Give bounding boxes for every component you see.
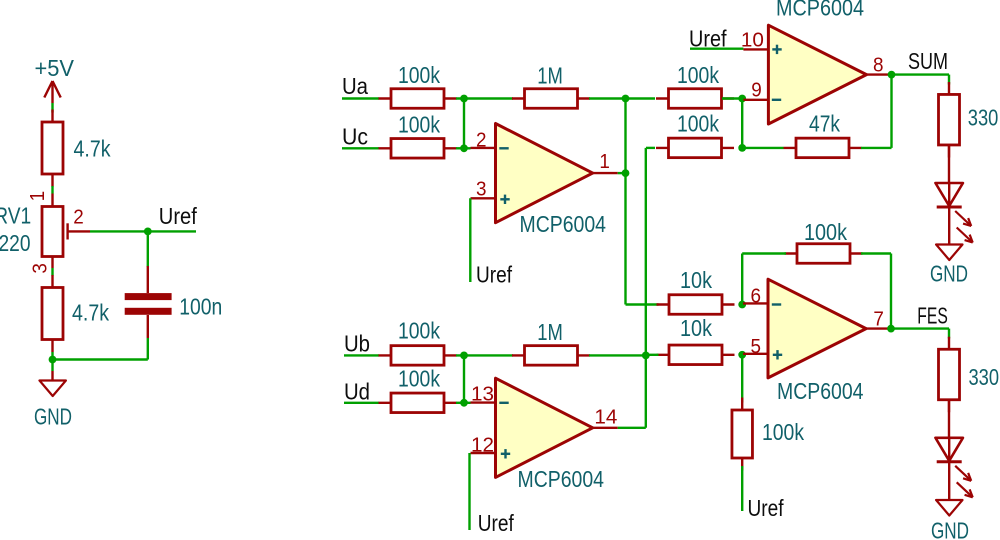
svg-text:330: 330 — [969, 364, 1000, 390]
svg-text:1M: 1M — [537, 319, 563, 345]
svg-text:MCP6004: MCP6004 — [777, 378, 864, 404]
wire to 10k pin6 — [626, 303, 659, 305]
wire — [51, 352, 53, 360]
svg-text:8: 8 — [873, 55, 884, 77]
node junction R2/GND — [49, 356, 57, 364]
node junction 47k row — [738, 144, 746, 152]
wire pin12 to Uref — [468, 453, 470, 530]
wire feedback C to output — [890, 254, 892, 329]
wire R15 to 1M — [456, 354, 513, 356]
resistor R2 — [42, 275, 63, 352]
svg-text:Uref: Uref — [159, 203, 198, 229]
LED D1 — [935, 183, 972, 243]
svg-text:4.7k: 4.7k — [74, 136, 111, 162]
wire — [51, 268, 53, 276]
wire U1A output — [618, 172, 626, 174]
wire 47k to output col — [861, 147, 892, 149]
node junction Ud row — [460, 399, 468, 407]
svg-text:100k: 100k — [804, 219, 847, 245]
wire pin9 column — [741, 99, 743, 148]
svg-text:12: 12 — [471, 434, 494, 456]
wire Ua — [342, 97, 379, 99]
wire junction B to 10k pin5 — [646, 354, 659, 356]
ground GND left pin — [51, 371, 53, 381]
wire feedback C left — [742, 252, 786, 254]
svg-text:2: 2 — [73, 206, 84, 228]
ground GND left — [40, 381, 66, 397]
LED D2 — [935, 438, 972, 498]
wire feedback C right — [861, 252, 891, 254]
node junction U1A output — [622, 169, 630, 177]
resistor R12 10k (pin5) — [657, 345, 735, 365]
svg-text:100k: 100k — [398, 62, 440, 88]
resistor R15 100k (Ub) — [379, 346, 457, 366]
wire LED1 cathode — [948, 207, 950, 245]
node junction Uc row — [460, 144, 468, 152]
node junction SUM output — [888, 71, 896, 79]
svg-text:Uref: Uref — [478, 510, 515, 536]
resistor R8 47k — [784, 138, 862, 158]
node junction 1M/feedback D — [642, 352, 650, 360]
wire R6 to pin9 — [722, 97, 743, 99]
svg-text:3: 3 — [29, 263, 51, 274]
svg-text:10k: 10k — [680, 267, 712, 293]
node junction Ub row — [460, 352, 468, 360]
resistor R7 100k (sum B) — [656, 138, 734, 158]
node junction pin5 — [738, 351, 746, 359]
svg-text:47k: 47k — [809, 111, 840, 137]
capacitor C1 100n — [125, 266, 172, 338]
svg-text:9: 9 — [751, 80, 762, 102]
power +5V symbol — [44, 81, 60, 103]
wire to 47k — [742, 147, 783, 149]
svg-text:Ud: Ud — [344, 378, 370, 404]
wire LED2 cathode — [948, 462, 950, 500]
node junction 1M/feedback A — [622, 95, 630, 103]
wire to 330 top — [948, 75, 950, 85]
svg-text:RV1: RV1 — [0, 202, 31, 228]
svg-text:100k: 100k — [677, 62, 719, 88]
svg-text:GND: GND — [930, 261, 968, 287]
wire R14 to Uref — [741, 466, 743, 511]
wire column B vertical — [645, 148, 647, 428]
wire feedback C down — [741, 254, 743, 305]
svg-text:GND: GND — [34, 404, 72, 430]
potentiometer RV1 — [42, 194, 90, 269]
node junction Uref/C1 — [144, 228, 152, 236]
wire Ub-Ud columns — [463, 355, 465, 402]
wire Uc — [342, 147, 379, 149]
svg-text:100k: 100k — [677, 111, 719, 137]
wire bottom rail — [53, 358, 148, 360]
wire 1M to junction B — [589, 354, 646, 356]
op-amp U1D — [471, 378, 618, 477]
wire U1D output — [618, 427, 646, 429]
svg-text:SUM: SUM — [908, 48, 948, 74]
svg-text:Uref: Uref — [748, 495, 785, 521]
pin name minus U1A — [499, 147, 508, 149]
wire 1M to junction A — [589, 97, 655, 99]
resistor R1 — [42, 110, 63, 187]
node junction Ua row — [460, 95, 468, 103]
svg-text:Ub: Ub — [344, 331, 370, 357]
ground GND top right — [936, 245, 962, 261]
svg-text:Uref: Uref — [476, 262, 513, 288]
svg-text:1M: 1M — [537, 62, 563, 88]
svg-text:4.7k: 4.7k — [72, 300, 109, 326]
pin name minus U1D — [499, 402, 508, 404]
svg-text:100k: 100k — [398, 365, 440, 391]
wire SUM output — [892, 73, 950, 75]
wire Uref to pin10 — [690, 48, 743, 50]
resistor R11 10k (pin6) — [657, 295, 735, 315]
wire to capacitor — [147, 231, 149, 266]
wire Ud — [344, 402, 379, 404]
wire to 330 bottom — [948, 329, 950, 339]
wire pin3 to Uref — [469, 198, 471, 282]
svg-text:100n: 100n — [179, 294, 222, 320]
op-amp U1C — [743, 279, 891, 378]
ground GND bottom right — [936, 500, 962, 516]
pin name plus U1A — [500, 195, 509, 204]
svg-text:1: 1 — [27, 191, 49, 202]
svg-text:13: 13 — [471, 383, 494, 405]
svg-text:+5V: +5V — [35, 55, 75, 81]
wire column A vertical — [624, 99, 626, 305]
resistor R14 100k (Uref bias) — [732, 398, 753, 471]
svg-text:100k: 100k — [398, 112, 440, 138]
op-amp U1B — [743, 25, 891, 124]
resistor R9 330 — [939, 82, 960, 158]
wire to GND — [51, 360, 53, 372]
wire feedback B vertical — [890, 75, 892, 148]
wire cap bottom — [147, 338, 149, 360]
wire LED2 anode — [948, 400, 950, 438]
svg-text:100k: 100k — [762, 419, 804, 445]
node junction pin9 — [738, 95, 746, 103]
svg-text:Uc: Uc — [342, 123, 368, 149]
svg-text:10k: 10k — [680, 315, 712, 341]
pin name plus U1B — [772, 45, 781, 54]
wire — [51, 103, 53, 113]
pin name plus U1C — [773, 350, 782, 359]
svg-text:MCP6004: MCP6004 — [520, 211, 607, 237]
svg-text:100k: 100k — [398, 318, 440, 344]
resistor R16 100k (Ud) — [379, 393, 457, 413]
svg-text:MCP6004: MCP6004 — [776, 0, 864, 21]
wire Uref from wiper — [90, 230, 196, 232]
wire LED1 anode — [948, 145, 950, 183]
svg-text:FES: FES — [917, 303, 948, 329]
pin name minus U1C — [772, 303, 781, 305]
wire FES output — [891, 327, 949, 329]
svg-text:220: 220 — [0, 230, 30, 256]
pin name plus U1D — [501, 449, 510, 458]
resistor R17 1M — [512, 346, 590, 366]
svg-text:Ua: Ua — [342, 73, 368, 99]
wire Ua-Uc columns — [463, 99, 465, 149]
svg-text:330: 330 — [968, 104, 999, 130]
wire column B to R7 — [646, 147, 655, 149]
resistor R3 100k (Ua) — [379, 89, 457, 109]
pin name minus U1B — [772, 99, 781, 101]
wire R3 to R5 1M — [456, 97, 513, 99]
node junction FES output — [887, 325, 895, 333]
svg-text:1: 1 — [599, 151, 610, 173]
wire Ub — [344, 354, 379, 356]
op-amp U1A — [471, 124, 618, 223]
resistor R6 100k (sum A) — [656, 89, 734, 109]
svg-text:GND: GND — [931, 518, 969, 540]
resistor R10 100k feedback FES — [785, 244, 863, 264]
svg-text:3: 3 — [476, 179, 487, 201]
resistor R13 330 — [939, 337, 960, 413]
resistor R5 1M — [512, 89, 590, 109]
resistor R4 100k (Uc) — [379, 139, 457, 159]
svg-text:2: 2 — [476, 129, 487, 151]
wire pin5 to R14 — [741, 355, 743, 403]
svg-text:14: 14 — [594, 407, 617, 429]
wire R16 to pin13 — [456, 402, 471, 404]
wire — [51, 186, 53, 194]
svg-text:7: 7 — [873, 309, 884, 331]
svg-text:MCP6004: MCP6004 — [518, 466, 605, 492]
wire R4 to pin2 — [456, 147, 471, 149]
node junction pin6 — [738, 301, 746, 309]
